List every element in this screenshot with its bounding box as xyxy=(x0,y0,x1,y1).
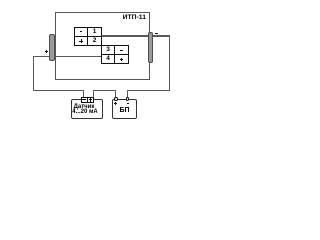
wire B: loop left into terminal 4 (y=56) xyxy=(33,56,102,57)
PSU label xyxy=(112,107,137,114)
sign + terminal 2 xyxy=(79,41,82,42)
PSU terminal circle - xyxy=(126,97,130,101)
PSU plus sign xyxy=(114,103,117,104)
wire A: terminal 1 to loop right (y=35) xyxy=(101,35,170,36)
terminal table 1 (terminals 1,2) xyxy=(74,27,102,46)
sensor plus sign xyxy=(89,99,93,100)
wire: loop left vertical xyxy=(33,56,34,91)
wire: bottom bus middle segment xyxy=(93,90,116,91)
sensor minus sign xyxy=(82,99,86,100)
label ИТП-11 xyxy=(105,14,146,21)
wire: stub to sensor minus xyxy=(83,90,84,97)
pin 3 xyxy=(102,46,114,54)
sign - terminal 3 xyxy=(120,50,123,51)
wire: stub from PSU minus xyxy=(127,90,128,98)
sensor terminals xyxy=(81,97,94,104)
polarity + at left clamp xyxy=(45,51,48,52)
terminal table 2 (terminals 3,4) xyxy=(101,45,129,64)
device box ИТП-11 xyxy=(55,12,150,80)
sensor label xyxy=(64,105,104,110)
pin 2 xyxy=(88,37,101,45)
wire: bottom bus left segment xyxy=(33,90,84,91)
sign + terminal 4 xyxy=(120,59,123,60)
PSU box БП xyxy=(112,99,137,119)
PSU minus sign xyxy=(127,103,130,104)
wire: stub to PSU plus xyxy=(115,90,116,98)
polarity - at right clamp xyxy=(155,33,158,34)
left clamp bar xyxy=(49,34,55,61)
sensor box Датчик 4...20 мА xyxy=(71,99,103,119)
sign - terminal 1 xyxy=(80,31,83,32)
right clamp bar xyxy=(148,32,153,63)
wire: bottom bus right segment xyxy=(127,90,170,91)
pin 4 xyxy=(102,55,114,63)
wire: loop right vertical xyxy=(169,35,170,91)
wire: stub from sensor plus xyxy=(93,90,94,97)
pin 1 xyxy=(88,28,101,36)
PSU terminal circle + xyxy=(114,97,118,101)
